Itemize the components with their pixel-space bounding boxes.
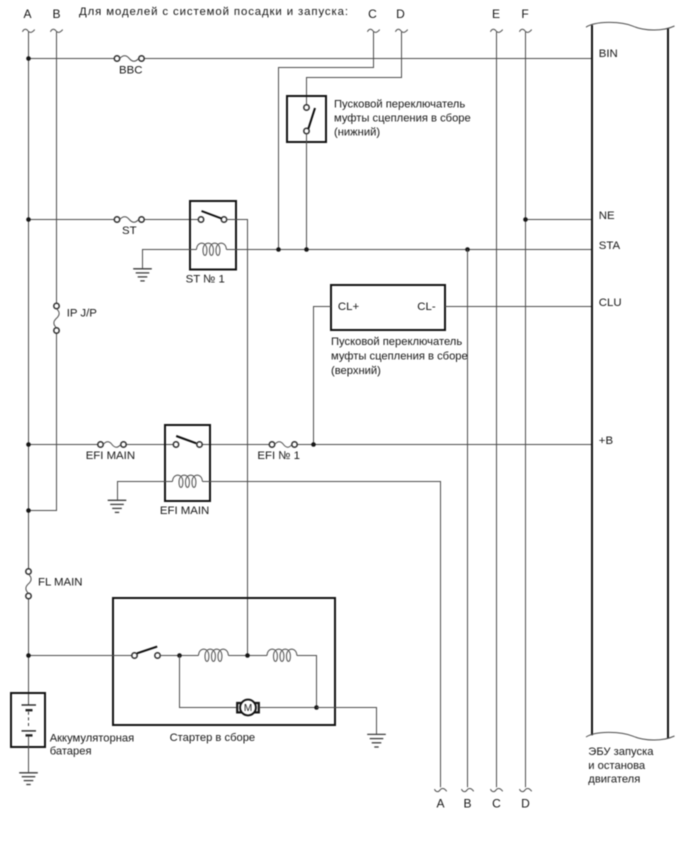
node A-ST junction: [26, 217, 31, 222]
relay EFI MAIN (box): [165, 425, 210, 501]
svg-text:STA: STA: [599, 240, 621, 252]
node starter motor branch: [177, 653, 182, 658]
node A-BBC junction: [26, 56, 31, 61]
svg-text:C: C: [492, 797, 501, 811]
svg-text:CL+: CL+: [338, 301, 360, 313]
wire EFI coil to ground: [118, 482, 166, 500]
relay ST contacts: [198, 217, 226, 222]
node STA to bottom B: [465, 247, 470, 252]
wire rail B vertical: [28, 32, 57, 511]
svg-text:D: D: [396, 7, 405, 21]
wire CL+ to +B rail: [314, 307, 332, 445]
connector A top symbol: [22, 29, 34, 32]
wire starter feed horizontal: [29, 655, 132, 657]
connector C top symbol: [367, 29, 379, 32]
svg-text:FL MAIN: FL MAIN: [38, 577, 83, 589]
connector B bottom symbol: [461, 788, 473, 791]
wire clutch switch lower to STA node: [306, 134, 308, 250]
svg-text:Стартер в сборе: Стартер в сборе: [170, 732, 256, 744]
clutch switch lower contacts: [304, 105, 309, 134]
coil solenoid hold-in: [267, 649, 297, 661]
svg-text:CL-: CL-: [417, 301, 436, 313]
connector A bottom symbol: [434, 788, 446, 791]
fuse FL MAIN: [26, 569, 31, 599]
ECU block edges: [592, 25, 668, 738]
relay ST coil: [190, 243, 236, 255]
svg-text:ST: ST: [122, 225, 137, 237]
relay EFI coil: [165, 475, 210, 487]
ground battery: [19, 773, 38, 785]
wire motor to right node: [259, 707, 316, 709]
svg-text:(нижний): (нижний): [334, 126, 380, 138]
node starter output junction: [314, 705, 319, 710]
wire E vertical: [496, 32, 498, 788]
wire BBC/BIN horizontal: [29, 58, 593, 60]
node F-NE junction: [523, 217, 528, 222]
wire ST relay coil to ground: [143, 250, 191, 269]
svg-text:(верхний): (верхний): [331, 365, 381, 377]
label battery annotation: [50, 733, 135, 758]
wire starter switch to solenoid: [160, 655, 198, 657]
battery plates: [22, 705, 37, 735]
connector E top symbol: [490, 29, 502, 32]
wire battery to ground: [28, 737, 30, 773]
fuse EFI MAIN: [98, 442, 126, 447]
svg-text:муфты сцепления в сборе: муфты сцепления в сборе: [334, 113, 471, 125]
svg-text:ST № 1: ST № 1: [186, 273, 225, 285]
svg-text:EFI MAIN: EFI MAIN: [86, 450, 135, 462]
wire rail A vertical: [28, 32, 30, 705]
node ST feed on solenoid: [245, 653, 250, 658]
wire starter to ground: [317, 708, 377, 735]
connector B top symbol: [50, 29, 62, 32]
svg-text:+B: +B: [599, 435, 613, 447]
fuse IP J/P: [54, 303, 59, 333]
svg-text:C: C: [368, 7, 377, 21]
svg-text:B: B: [52, 7, 60, 21]
node C drop on STA: [276, 247, 281, 252]
relay EFI lever: [176, 436, 196, 443]
svg-text:двигателя: двигателя: [588, 774, 640, 786]
svg-text:Аккумуляторная: Аккумуляторная: [50, 733, 135, 745]
starter assembly (box): [113, 598, 335, 725]
ECU bottom wave: [586, 732, 675, 740]
node A-+B junction: [26, 442, 31, 447]
connector C bottom symbol: [490, 788, 502, 791]
ECU top wave: [586, 22, 675, 30]
connector D bottom symbol: [519, 788, 531, 791]
wire NE horizontal: [526, 219, 593, 221]
wire D top drop: [307, 32, 402, 105]
wire bottom B vertical: [467, 250, 469, 788]
svg-text:ЭБУ запуска: ЭБУ запуска: [588, 746, 654, 758]
svg-text:A: A: [436, 797, 444, 811]
node A-starter junction: [26, 653, 31, 658]
svg-text:Для моделей с системой посадки: Для моделей с системой посадки и запуска…: [79, 6, 348, 18]
wire EFI coil to bottom connector A: [210, 482, 441, 788]
svg-text:EFI № 1: EFI № 1: [257, 450, 300, 462]
wire motor branch left: [180, 656, 238, 708]
starter switch lever: [137, 647, 157, 654]
svg-text:CLU: CLU: [599, 297, 622, 309]
node B joins A: [26, 508, 31, 513]
svg-text:муфты сцепления в сборе: муфты сцепления в сборе: [331, 350, 468, 362]
node D drop on STA: [304, 247, 309, 252]
connector F top symbol: [519, 29, 531, 32]
svg-text:IP J/P: IP J/P: [67, 308, 97, 320]
svg-text:Пусковой переключатель: Пусковой переключатель: [334, 99, 465, 111]
fuse BBC: [114, 56, 144, 61]
ground ST relay: [133, 269, 152, 281]
wire CLU horizontal: [445, 306, 592, 308]
coil solenoid pull-in: [199, 649, 229, 661]
motor M: [237, 700, 259, 716]
wire +B horizontal: [29, 444, 593, 446]
clutch switch lower lever: [308, 108, 315, 129]
label clutch switch upper annotation: [331, 336, 468, 377]
wire F vertical: [525, 32, 527, 788]
battery (box): [11, 693, 45, 747]
svg-text:A: A: [23, 7, 31, 21]
wire between solenoid coils: [228, 655, 267, 657]
connector D top symbol: [395, 29, 407, 32]
svg-text:B: B: [463, 797, 471, 811]
wire C top drop: [279, 32, 374, 250]
svg-text:Пусковой переключатель: Пусковой переключатель: [331, 336, 462, 348]
svg-text:и останова: и останова: [588, 760, 646, 772]
wire STA horizontal: [236, 249, 592, 251]
svg-text:EFI MAIN: EFI MAIN: [160, 505, 209, 517]
relay ST lever: [202, 211, 222, 219]
svg-text:батарея: батарея: [50, 746, 92, 758]
svg-text:F: F: [521, 7, 528, 21]
svg-text:BIN: BIN: [599, 48, 618, 60]
svg-text:D: D: [521, 797, 530, 811]
svg-text:E: E: [492, 7, 500, 21]
svg-text:BBC: BBC: [119, 65, 142, 77]
fuse ST: [114, 217, 144, 222]
fuse EFI No.1: [269, 442, 297, 447]
ground starter: [367, 734, 386, 747]
node CL+ on +B: [311, 442, 316, 447]
starter switch contacts: [132, 653, 160, 658]
clutch start switch upper (box CL): [331, 285, 445, 330]
svg-text:M: M: [244, 703, 252, 714]
relay EFI contacts: [173, 442, 202, 447]
label ECU annotation: [588, 746, 654, 785]
relay ST No.1 (box): [190, 201, 236, 270]
clutch start switch lower (box): [287, 96, 326, 142]
ground EFI relay: [108, 500, 127, 512]
label clutch switch lower annotation: [334, 99, 471, 139]
svg-text:NE: NE: [599, 210, 615, 222]
wire ST relay output to starter: [226, 220, 247, 656]
wire solenoid to motor right: [297, 656, 317, 708]
wire ST horizontal: [29, 219, 199, 221]
